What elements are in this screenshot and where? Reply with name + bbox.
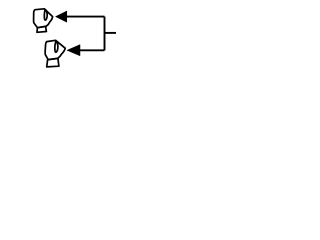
hand icon H2 (bottom) [45, 40, 65, 67]
wire: top horizontal from A1 to vertical bus [67, 16, 105, 18]
arrow A1 (top, points left into hand H1) [56, 11, 67, 22]
background [0, 0, 150, 78]
hand icon H1 (top) [34, 9, 53, 33]
wire: vertical bus [104, 17, 106, 51]
arrow A2 (bottom, points left into hand H2) [67, 45, 80, 56]
wire: bottom horizontal from bus to arrow A2 [80, 49, 105, 51]
wire: middle stub to the right of bus [105, 32, 117, 34]
